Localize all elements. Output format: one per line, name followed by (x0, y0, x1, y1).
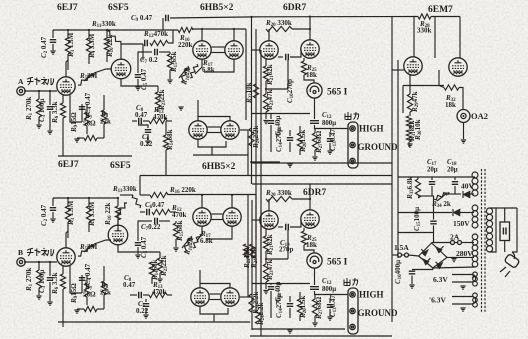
resistor R25 18k (301, 61, 306, 75)
capacitor C13 0.47 (327, 305, 333, 308)
wire node rail (252, 283, 311, 285)
transformer secondary winding 150V (472, 205, 478, 211)
resistor R9 15ohm (84, 135, 97, 140)
triode 6SF5 A (111, 59, 131, 79)
capacitor C12 800u output (310, 121, 319, 124)
wire 40V rail (398, 176, 475, 178)
output terminal strip (348, 288, 358, 334)
triode 6EJ7 A (57, 77, 75, 95)
wire node rail (252, 113, 311, 115)
wire grid drive vertical (434, 17, 436, 59)
resistor R8 22k (101, 281, 106, 295)
wire input to grid (24, 261, 57, 263)
input label B channel (27, 248, 54, 256)
resistor R7 56ohm (84, 112, 89, 126)
input jack J-B (17, 258, 25, 266)
wire 6HB5 lower cathodes (198, 139, 226, 147)
triode 6EM7 first (404, 57, 422, 75)
wire 6SF5 plate (120, 44, 122, 59)
bridge rectifier (431, 242, 433, 245)
regulator tube 5651 (307, 253, 322, 268)
wire right vertical second (397, 60, 399, 258)
potentiometer R34 2k (418, 195, 434, 197)
transformer core (481, 169, 483, 312)
wire C12 to output (315, 125, 349, 129)
pentode 6HB5 B upper-right (223, 208, 241, 226)
resistor R27 68ohm (312, 299, 317, 316)
wire 6HB5B upper plates (201, 195, 203, 208)
capacitor C3 100u (49, 262, 51, 276)
capacitor C11 40u (270, 114, 272, 120)
ground rail DR7 (252, 162, 345, 164)
wire B+ vertical rail 1 (245, 29, 247, 120)
resistor R16 220k (B) (150, 192, 168, 197)
wire ground rail right (345, 162, 392, 164)
capacitor C4 0.47 (79, 278, 85, 281)
wire junction rail (247, 130, 249, 176)
resistor R22 10k (A) (253, 84, 258, 98)
resistor R25 18k (301, 231, 306, 245)
wire R20 to plates (292, 198, 310, 200)
wire R20 to plates (292, 28, 310, 30)
wire 6EJ7 plate up (66, 60, 68, 77)
resistor R4 3.3M (86, 206, 91, 222)
capacitor C7 0.2 (A) (155, 49, 158, 55)
wire plate leads 6HB5 lower (198, 117, 230, 122)
resistor R22 10k (B) (243, 244, 248, 258)
wire screen rail B (195, 321, 250, 323)
resistor R23 47k (263, 94, 268, 112)
resistor R24 2.2k (B label) (257, 303, 266, 326)
wire 5651 down (314, 268, 316, 285)
wire row 232 (398, 232, 434, 234)
wire screen rail A (193, 154, 248, 156)
wire B+ rail feed B channel (252, 183, 392, 185)
B+ rail (53, 197, 118, 199)
fuse 2A (432, 242, 450, 244)
line filter box (500, 222, 510, 241)
wire 6HB5B lower plates (200, 284, 230, 289)
resistor R23 22k (B) (157, 258, 162, 273)
potentiometer R5 2M (78, 244, 94, 256)
triode 6DR7 second (301, 40, 319, 58)
wire B+ vertical rail 3 (255, 29, 257, 240)
resistor R33 6.8k (415, 179, 420, 198)
B+ rail (53, 29, 178, 31)
wire B+ vertical rail 4 (260, 50, 262, 300)
capacitor C12 800u output (310, 287, 319, 290)
capacitor+resistor R12 470k coupling (A) (145, 40, 148, 46)
resistor R15 68k (B) (173, 223, 178, 239)
resistor R28 330k (418, 14, 431, 19)
capacitor C7 0.22 (B) (155, 218, 158, 224)
ground rail (58, 155, 132, 157)
wire plate leads 6HB5 upper (201, 29, 203, 41)
resistor R24 2.2k (249, 294, 254, 312)
wire 6EJ7 plate up (66, 231, 68, 248)
triode 6DR7 second (301, 210, 319, 228)
output label (344, 278, 358, 286)
resistor R18 2k (A) (181, 66, 189, 82)
triode 6DR7 first (260, 211, 278, 229)
wire C12 to output (315, 291, 349, 295)
resistor R3 1.3M (65, 38, 70, 54)
wire 150V row (398, 212, 452, 214)
wire cathode node (70, 95, 82, 122)
wire 6DR7 grid stub (252, 49, 260, 51)
resistor R3 1.3M (65, 206, 70, 222)
resistor R17 6.8k (A) (190, 64, 198, 78)
resistor R9 15ohm (84, 306, 97, 311)
capacitor C16 400u (412, 268, 433, 270)
capacitor C13 0.47 (327, 139, 333, 142)
resistor R17 6.8k (B) (193, 234, 201, 248)
resistor R20 330k (266, 196, 292, 201)
resistor R26 1.5k (297, 133, 302, 149)
resistor R24 82k (B) (249, 244, 254, 258)
resistor R6 3.3k cathode (62, 266, 64, 274)
AC plug (504, 254, 520, 269)
resistor R14 68k (A) (163, 135, 168, 150)
wire rail drop (139, 176, 141, 196)
resistor R10 22k (115, 206, 120, 220)
wire 6HB5 lower links (208, 126, 221, 128)
capacitor C5 0.47 (A) (138, 52, 143, 73)
output terminal strip (348, 122, 358, 168)
wire 6HB5 upper pair links (212, 46, 225, 48)
resistor R32 18k (444, 85, 459, 90)
resistor R1 270k (38, 91, 40, 99)
capacitor C3 100u (49, 91, 51, 105)
ground rail DR7 (252, 328, 345, 330)
resistor R7 56ohm (84, 283, 89, 297)
wire bottom rail B (250, 335, 392, 337)
pentode 6HB5 A lower-left (189, 121, 207, 139)
resistor R23 47k (263, 264, 268, 282)
transformer heater winding 2 (473, 293, 478, 298)
resistor R1 270k (38, 262, 40, 270)
transformer primary winding (486, 208, 492, 214)
wire 6SF5B plate (117, 213, 119, 225)
resistor R29 47k (407, 94, 412, 112)
input jack J-A (17, 87, 25, 95)
regulator OA2 (457, 110, 470, 123)
output label (345, 112, 359, 120)
triode 6DR7 first (260, 41, 278, 59)
capacitor C5 0.22 (B) (145, 299, 147, 302)
triode 6EM7 second (449, 58, 467, 76)
wire input to grid (24, 90, 57, 92)
wire primary to line (490, 207, 517, 209)
regulator tube 5651 (307, 83, 322, 98)
wire 5651 down (314, 98, 316, 119)
wire R12 node (121, 43, 143, 45)
resistor R15 65k (A) (167, 54, 172, 70)
resistor R4 3.3M (86, 38, 91, 54)
capacitor C2 0.47 (52, 198, 54, 206)
pentode 6HB5 B lower-left (191, 288, 209, 306)
ground rail (58, 321, 196, 323)
wire rail link (250, 161, 280, 163)
wire cathode row (403, 85, 444, 87)
capacitor C11 40u (270, 284, 272, 286)
wire 280V (447, 256, 474, 258)
wire 6HB5B upper links (212, 213, 223, 215)
wire top B+ line (170, 17, 418, 19)
wire 6SF5 cathode to R23 (121, 79, 158, 86)
capacitor C10 270p (278, 56, 283, 58)
triode 6SF5 B (108, 225, 128, 245)
triode 6EJ7 B (57, 248, 75, 266)
resistor R18 2k (B) (184, 236, 192, 252)
wire 6DR7 grid stub (252, 219, 260, 221)
capacitor C15 100u (433, 196, 435, 220)
resistor R26 1.5k (297, 299, 302, 315)
pentode 6HB5 B lower-right (221, 288, 239, 306)
wire 6HB5B lower links (210, 293, 221, 295)
resistor R20 330k (266, 26, 292, 31)
wire OA2 ground (463, 123, 465, 140)
transformer heater winding 1 (473, 272, 478, 277)
resistor R24 2.2k (249, 128, 254, 146)
resistor R8 22k (101, 110, 106, 124)
pentode 6HB5 A upper-left (193, 41, 211, 59)
diode 40V (449, 193, 461, 195)
wire 6HB5B upper cathodes (197, 226, 202, 241)
wire 6HB5 upper cathodes (195, 59, 202, 74)
resistor R21 82k (263, 66, 268, 81)
wire B verticals (247, 195, 249, 298)
fuse 1.5A (392, 254, 397, 256)
resistor R10 22k (104, 38, 109, 52)
B+ rail channel B (140, 175, 392, 177)
transformer secondary winding 280V (472, 234, 478, 240)
resistor R23 22k (A) (155, 92, 160, 107)
pentode 6HB5 B upper-left (193, 208, 211, 226)
capacitor C5 0.47 (B) (138, 221, 143, 241)
wire plate to B+ line (309, 17, 311, 30)
wire right B+ vertical main (391, 17, 393, 323)
resistor R27 68ohm (312, 133, 317, 150)
wire 6EM7 plate leads (413, 17, 415, 58)
capacitor C14 270p (287, 138, 293, 141)
wire bridge bottom to winding (433, 267, 475, 268)
resistor R30 10k (406, 116, 411, 128)
wire 6EM7 couple (438, 70, 440, 86)
transformer secondary winding 40V (472, 172, 478, 178)
resistor R31 82k (406, 130, 411, 142)
capacitor C14 270p (287, 304, 293, 307)
resistor R14 68k (B) (149, 262, 154, 277)
wire cathode node (70, 266, 82, 293)
input label A channel (27, 77, 54, 85)
capacitor C10 270p (278, 226, 283, 228)
resistor R6 3.3k cathode (62, 95, 64, 103)
diode 150V (453, 209, 460, 216)
capacitor C2 0.47 (52, 30, 54, 38)
wire B+ vertical rail 2 (251, 17, 253, 184)
wire plate to B+ line (309, 184, 311, 199)
capacitor C4 0.47 (79, 107, 85, 110)
pentode 6HB5 A upper-right (225, 41, 243, 59)
potentiometer R5 2M (78, 73, 94, 85)
resistor R21 82k (263, 236, 268, 251)
capacitor C6 0.22 (A) (138, 125, 148, 128)
wire 6SF5B cathode to R23 (118, 245, 160, 252)
resistor R16 220k in rail A (178, 27, 193, 32)
pentode 6HB5 A lower-right (221, 121, 239, 139)
wire 6HB5B lower cathodes (200, 306, 228, 314)
